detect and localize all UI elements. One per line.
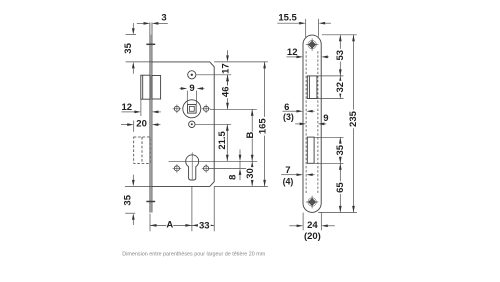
svg-text:33: 33: [199, 220, 210, 231]
svg-text:9: 9: [189, 83, 194, 94]
svg-text:20: 20: [136, 119, 147, 130]
svg-text:9: 9: [323, 113, 328, 124]
svg-text:15.5: 15.5: [278, 12, 297, 23]
svg-text:(20): (20): [304, 231, 321, 242]
svg-text:35: 35: [335, 144, 346, 155]
svg-text:32: 32: [335, 82, 346, 93]
svg-text:B: B: [245, 131, 256, 138]
svg-text:21.5: 21.5: [217, 130, 228, 149]
svg-text:65: 65: [335, 182, 346, 193]
svg-text:A: A: [166, 220, 173, 231]
svg-text:Dimension entre parenthèses po: Dimension entre parenthèses pour largeur…: [122, 251, 265, 257]
svg-text:7: 7: [285, 165, 290, 176]
svg-text:(4): (4): [283, 176, 294, 186]
svg-text:165: 165: [258, 118, 269, 135]
svg-text:235: 235: [348, 110, 359, 127]
svg-text:24: 24: [307, 220, 318, 231]
svg-text:8: 8: [227, 175, 238, 180]
svg-text:3: 3: [161, 13, 166, 24]
svg-text:30: 30: [245, 168, 256, 179]
svg-text:35: 35: [123, 194, 134, 205]
svg-text:53: 53: [335, 50, 346, 61]
svg-text:12: 12: [122, 102, 133, 113]
svg-text:35: 35: [123, 42, 134, 53]
svg-text:46: 46: [220, 87, 231, 98]
svg-text:(3): (3): [283, 112, 294, 122]
svg-text:17: 17: [221, 63, 232, 74]
svg-text:12: 12: [287, 47, 298, 58]
